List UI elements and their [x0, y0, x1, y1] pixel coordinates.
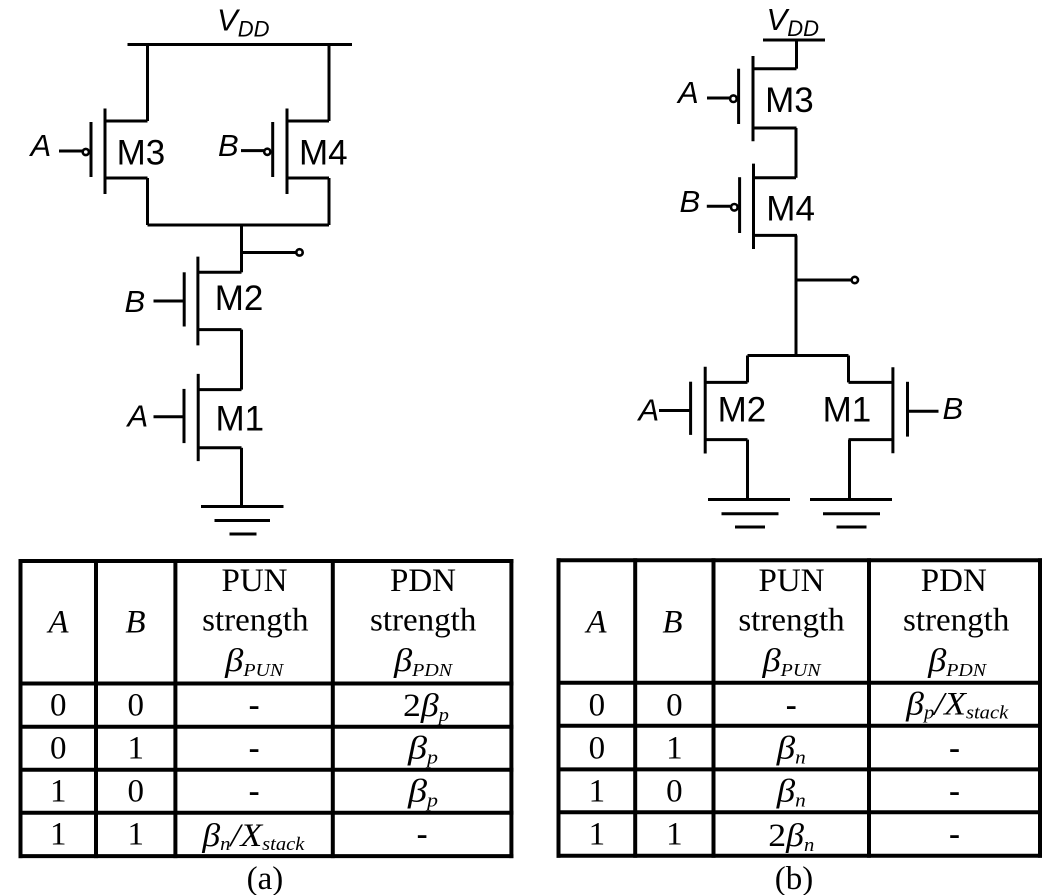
wire M1 source to ground (b) — [848, 440, 851, 500]
svg-text:B: B — [680, 184, 701, 219]
svg-text:0: 0 — [589, 688, 606, 724]
nmos M2 (b) — [659, 367, 766, 454]
svg-text:A: A — [676, 75, 699, 110]
pmos M4 (a) — [241, 109, 348, 195]
ground symbol left (b) — [708, 500, 790, 528]
svg-text:A: A — [46, 605, 69, 641]
wire M2 source to M1 drain (a) — [240, 330, 243, 390]
svg-text:B: B — [662, 605, 682, 641]
svg-text:PUN: PUN — [221, 563, 287, 599]
svg-text:1: 1 — [50, 774, 67, 810]
output terminal circle (b) — [852, 277, 858, 283]
svg-text:0: 0 — [666, 774, 683, 810]
svg-text:-: - — [249, 688, 260, 724]
wire output stub (a) — [242, 251, 296, 254]
svg-text:M2: M2 — [215, 279, 264, 318]
output terminal circle (a) — [296, 249, 302, 255]
svg-text:strength: strength — [202, 603, 309, 639]
svg-text:strength: strength — [370, 603, 477, 639]
wire VDD rail to M3 drain (a) — [146, 45, 149, 122]
wire VDD rail to M3 drain (b) — [795, 40, 798, 69]
svg-text:(b): (b) — [775, 861, 813, 895]
wire junction to M1 drain (b) — [847, 356, 850, 383]
svg-text:strength: strength — [903, 603, 1010, 639]
table (b) row 1: A=0 B=0 — [589, 687, 1009, 724]
wire M2 source to ground (b) — [746, 440, 749, 500]
table (b) row 2: A=0 B=1 — [589, 731, 960, 769]
svg-text:-: - — [249, 774, 260, 810]
svg-text:1: 1 — [589, 774, 606, 810]
wire VDD rail (a) — [128, 43, 353, 46]
svg-text:-: - — [249, 731, 260, 767]
svg-text:PDN: PDN — [390, 563, 456, 599]
wire junction to M2 drain (b) — [746, 356, 749, 383]
svg-text:M1: M1 — [823, 391, 872, 430]
nmos M1 (a) — [154, 374, 265, 461]
table (a) header PDN strength — [370, 563, 477, 680]
svg-text:A: A — [126, 399, 149, 434]
svg-text:-: - — [949, 774, 960, 810]
svg-text:M1: M1 — [216, 400, 265, 439]
svg-text:-: - — [949, 817, 960, 853]
svg-text:1: 1 — [127, 731, 144, 767]
svg-text:B: B — [125, 284, 146, 319]
svg-text:-: - — [786, 688, 797, 724]
svg-text:M3: M3 — [765, 81, 814, 120]
pmos M3 (b) — [707, 56, 814, 141]
svg-text:0: 0 — [127, 688, 144, 724]
wire VDD rail (b) — [763, 39, 825, 42]
pmos M4 (b) — [707, 164, 815, 249]
wire output stub (b) — [796, 279, 852, 282]
svg-text:0: 0 — [50, 731, 67, 767]
svg-text:1: 1 — [666, 817, 683, 853]
table (a) grid — [19, 559, 514, 858]
svg-text:0: 0 — [50, 688, 67, 724]
ground symbol (a) — [201, 507, 284, 535]
svg-text:1: 1 — [666, 731, 683, 767]
svg-text:B: B — [943, 391, 964, 426]
svg-text:0: 0 — [589, 731, 606, 767]
table (b) header PDN strength — [903, 563, 1010, 680]
wire M3 source to M4 drain (b) — [795, 128, 798, 178]
table (a) row 3: A=1 B=0 — [50, 774, 438, 812]
wire M4 source down (a) — [328, 178, 331, 225]
svg-text:A: A — [584, 605, 607, 641]
svg-text:0: 0 — [666, 688, 683, 724]
svg-text:M2: M2 — [718, 391, 767, 430]
table (a) header PUN strength — [202, 563, 309, 680]
svg-text:A: A — [29, 128, 52, 163]
svg-text:B: B — [125, 605, 145, 641]
nmos M2 (a) — [154, 257, 264, 346]
wire VDD rail to M4 drain (a) — [328, 45, 331, 122]
wire M4 source to NMOS junction (b) — [795, 235, 798, 355]
table (a) row 1: A=0 B=0 — [50, 688, 449, 727]
table (b) header PUN strength — [738, 563, 845, 680]
table (b) row 3: A=1 B=0 — [589, 774, 960, 812]
wire M1 source to ground (a) — [240, 448, 243, 507]
pmos M3 (a) — [59, 109, 165, 195]
wire PMOS sources junction bar (a) — [148, 224, 330, 227]
table (a) row 2: A=0 B=1 — [50, 731, 438, 769]
svg-text:M4: M4 — [766, 190, 815, 229]
svg-text:1: 1 — [589, 817, 606, 853]
svg-text:-: - — [949, 731, 960, 767]
wire M3 source down (a) — [146, 178, 149, 225]
svg-text:-: - — [417, 817, 428, 853]
svg-text:strength: strength — [738, 603, 845, 639]
svg-text:1: 1 — [127, 817, 144, 853]
svg-text:0: 0 — [127, 774, 144, 810]
svg-text:M4: M4 — [299, 134, 348, 173]
table (b) row 4: A=1 B=1 — [589, 817, 960, 857]
table (b) grid — [557, 558, 1043, 857]
svg-text:A: A — [637, 393, 660, 428]
ground symbol right (b) — [810, 500, 892, 528]
wire junction to M2 drain (a) — [240, 225, 243, 272]
table (a) row 4: A=1 B=1 — [50, 817, 428, 856]
svg-text:PUN: PUN — [758, 563, 824, 599]
wire NMOS drains junction bar (b) — [748, 354, 849, 357]
svg-text:1: 1 — [50, 817, 67, 853]
nmos M1 (b) — [823, 367, 939, 453]
svg-text:B: B — [218, 128, 239, 163]
svg-text:(a): (a) — [247, 861, 284, 895]
svg-text:PDN: PDN — [921, 563, 987, 599]
svg-text:M3: M3 — [117, 134, 166, 173]
